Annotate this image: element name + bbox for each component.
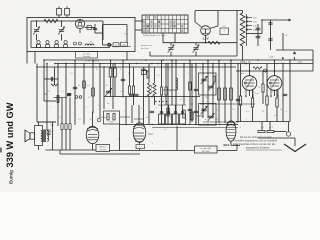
svg-text:0,1: 0,1 xyxy=(146,117,149,119)
svg-text:0,1: 0,1 xyxy=(78,119,81,121)
svg-text:0,5: 0,5 xyxy=(98,105,101,107)
svg-text:5: 5 xyxy=(156,107,157,109)
svg-text:(+dB: (+dB xyxy=(269,56,274,58)
svg-text:0,1: 0,1 xyxy=(164,129,167,131)
svg-text:6: 6 xyxy=(118,139,119,141)
svg-text:5k: 5k xyxy=(180,99,182,101)
svg-text:Hersteller angegebenen und am: Hersteller angegebenen und am Schaltbild xyxy=(235,140,278,143)
svg-text:50: 50 xyxy=(280,109,282,111)
svg-text:nur bei GW: nur bei GW xyxy=(200,147,211,150)
svg-text:339 GW: 339 GW xyxy=(202,151,210,153)
svg-text:der Seite: der Seite xyxy=(141,47,149,50)
svg-text:2: 2 xyxy=(246,119,247,121)
svg-text:EK2: EK2 xyxy=(224,143,230,147)
svg-text:1: 1 xyxy=(188,73,189,75)
svg-text:2M: 2M xyxy=(205,97,208,99)
svg-text:angegebenen Eckwerte: angegebenen Eckwerte xyxy=(246,147,270,150)
svg-text:2: 2 xyxy=(133,99,134,101)
svg-text:0,2: 0,2 xyxy=(190,117,193,119)
svg-text:0,1: 0,1 xyxy=(170,91,173,93)
svg-text:6: 6 xyxy=(120,69,121,71)
svg-text:30: 30 xyxy=(74,111,76,113)
svg-text:1: 1 xyxy=(50,107,51,109)
svg-text:gesehen von: gesehen von xyxy=(141,45,152,47)
svg-text:0,3: 0,3 xyxy=(232,109,235,111)
svg-text:1,2V: 1,2V xyxy=(202,36,209,40)
svg-text:5: 5 xyxy=(222,69,223,71)
svg-text:0,1: 0,1 xyxy=(270,91,273,93)
svg-text:1: 1 xyxy=(200,125,201,127)
svg-text:5000: 5000 xyxy=(110,122,114,124)
svg-text:3: 3 xyxy=(152,143,153,145)
svg-text:0,2: 0,2 xyxy=(157,75,160,77)
svg-text:0,1: 0,1 xyxy=(120,91,123,93)
svg-text:0,1: 0,1 xyxy=(70,73,73,75)
svg-text:Wellen-: Wellen- xyxy=(99,147,106,149)
svg-text:1k: 1k xyxy=(258,87,260,89)
svg-text:0,3: 0,3 xyxy=(88,97,91,99)
svg-text:5k: 5k xyxy=(78,85,80,87)
svg-text:3: 3 xyxy=(286,111,287,113)
svg-text:50: 50 xyxy=(148,91,150,93)
svg-text:EBF2: EBF2 xyxy=(148,134,154,136)
svg-text:+260: +260 xyxy=(297,62,303,64)
svg-text:2M: 2M xyxy=(215,119,218,121)
svg-text:0,1: 0,1 xyxy=(61,91,64,93)
svg-text:3: 3 xyxy=(86,107,87,109)
svg-text:schalter: schalter xyxy=(99,149,107,152)
svg-text:0,5: 0,5 xyxy=(60,117,63,119)
svg-text:Die bei den Umbauten von dem: Die bei den Umbauten von dem xyxy=(240,136,272,139)
svg-text:0,1: 0,1 xyxy=(223,26,226,28)
svg-text:0,2: 0,2 xyxy=(160,99,163,101)
svg-text:4: 4 xyxy=(240,127,241,129)
svg-text:Vorstufe: Vorstufe xyxy=(82,55,91,58)
svg-text:2x0,1: 2x0,1 xyxy=(255,93,260,95)
svg-text:0,1: 0,1 xyxy=(194,89,197,91)
svg-text:30: 30 xyxy=(178,67,180,69)
svg-text:50: 50 xyxy=(96,69,98,71)
svg-text:0,5: 0,5 xyxy=(90,119,93,121)
svg-text:Eumig: Eumig xyxy=(9,170,14,184)
svg-text:0,1: 0,1 xyxy=(274,115,277,117)
svg-text:2: 2 xyxy=(124,111,125,113)
svg-text:aus der: aus der xyxy=(83,52,91,55)
svg-text:582: 582 xyxy=(51,125,54,127)
svg-text:339 W und GW: 339 W und GW xyxy=(5,102,15,167)
svg-text:1M: 1M xyxy=(105,85,108,87)
svg-text:4: 4 xyxy=(170,117,171,119)
svg-text:0,3: 0,3 xyxy=(141,108,144,110)
svg-text:0,1: 0,1 xyxy=(244,91,247,93)
svg-text:0,1: 0,1 xyxy=(261,127,264,129)
svg-text:0,1: 0,1 xyxy=(217,109,220,111)
svg-text:25: 25 xyxy=(48,91,50,93)
svg-text:2: 2 xyxy=(70,95,71,97)
svg-text:0,1: 0,1 xyxy=(270,127,273,129)
svg-text:leicht brauchbaren Werte und d: leicht brauchbaren Werte und den daf. al… xyxy=(233,143,276,146)
svg-text:0,1: 0,1 xyxy=(200,69,203,71)
